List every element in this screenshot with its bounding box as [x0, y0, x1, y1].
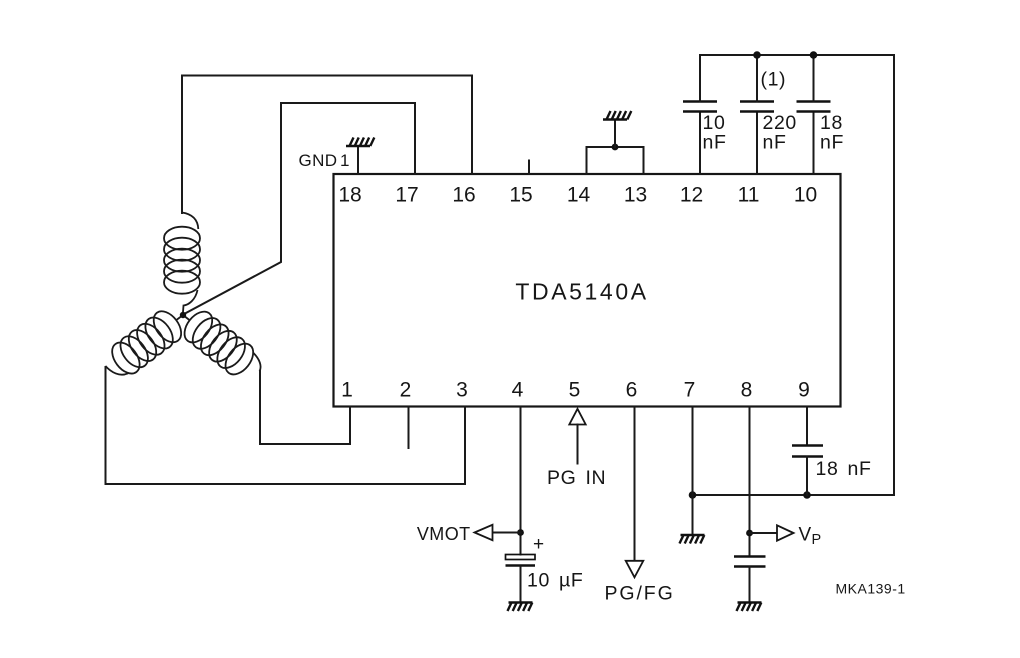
IC U1 TDA5140A body — [334, 174, 841, 407]
coil L3 right winding — [173, 302, 268, 387]
junction VP node — [746, 530, 753, 537]
wire right side rail — [893, 55, 895, 495]
capacitor C4 18nF — [792, 446, 823, 457]
wire pin7 to ground — [692, 407, 694, 536]
svg-text:1: 1 — [341, 379, 353, 402]
wire pin9 to C4 — [806, 407, 808, 446]
wire C3 to top rail — [813, 55, 815, 102]
svg-text:TDA5140A: TDA5140A — [515, 279, 648, 305]
junction star node — [180, 312, 186, 318]
wire pin18 to GND1 — [357, 146, 359, 174]
svg-text:8: 8 — [741, 379, 753, 402]
wire C1 to top rail — [699, 55, 701, 102]
wire pin3 bottom rail to coil L2 end — [106, 367, 466, 484]
svg-text:nF: nF — [703, 132, 727, 154]
svg-text:5: 5 — [569, 379, 581, 402]
wire pin11 to C2 — [756, 112, 758, 175]
junction bottom rail C4 — [803, 491, 811, 499]
ground C6 — [737, 603, 762, 612]
svg-text:P: P — [812, 532, 822, 548]
wire pin10 to C3 — [813, 112, 815, 175]
ground pin7 — [680, 535, 705, 544]
wire pin8 down through rail to VP node — [749, 407, 751, 557]
coil L1 top winding — [164, 213, 200, 315]
wire C2 to top rail — [756, 55, 758, 102]
junction top rail C3 — [810, 51, 818, 59]
svg-text:µF: µF — [559, 570, 583, 592]
svg-text:13: 13 — [624, 184, 647, 207]
wire C4 to bottom rail — [806, 457, 808, 496]
capacitor C3 18nF — [797, 102, 831, 112]
wire strap to ground — [614, 120, 616, 148]
svg-text:18: 18 — [338, 184, 361, 207]
svg-text:9: 9 — [798, 379, 810, 402]
svg-text:IN: IN — [586, 467, 607, 489]
arrow VP (right) — [777, 525, 794, 540]
arrow PG/FG (down) — [626, 561, 644, 578]
svg-text:10: 10 — [527, 570, 550, 592]
svg-text:10: 10 — [794, 184, 817, 207]
pin 15 stub — [528, 161, 530, 175]
wire pins 14-13 strap — [587, 147, 644, 174]
svg-text:V: V — [799, 525, 812, 546]
svg-text:12: 12 — [680, 184, 703, 207]
wire VMOT node to arrow — [493, 532, 521, 534]
wire pin1 to coil L3 end — [260, 371, 350, 444]
svg-text:7: 7 — [684, 379, 696, 402]
svg-text:18: 18 — [816, 458, 839, 480]
arrow VMOT (left) — [475, 525, 493, 540]
wire top rail — [700, 54, 894, 56]
wire PG IN — [577, 425, 579, 464]
junction VMOT node — [517, 529, 524, 536]
capacitor C2 220nF — [740, 102, 774, 112]
wire C6 to ground — [749, 567, 751, 603]
svg-text:3: 3 — [456, 379, 468, 402]
svg-text:2: 2 — [400, 379, 412, 402]
junction bottom rail pin7 — [689, 491, 697, 499]
pin 2 stub — [408, 407, 410, 449]
capacitor C5 10uF electrolytic — [506, 555, 536, 560]
wire pin6 to PG/FG arrow — [634, 407, 636, 561]
svg-text:14: 14 — [567, 184, 591, 207]
wire pin16 to coil L1 top — [182, 76, 472, 214]
junction top rail C2 — [753, 51, 761, 59]
svg-text:PG/FG: PG/FG — [605, 583, 675, 605]
ground GND1 symbol — [346, 138, 374, 147]
wire pin4 to VMOT node and C5 — [520, 407, 522, 555]
wire C5 to ground — [520, 567, 522, 603]
ground C5 — [508, 603, 533, 612]
svg-text:17: 17 — [395, 184, 418, 207]
svg-text:nF: nF — [848, 458, 872, 480]
wire pin12 to C1 — [699, 112, 701, 175]
svg-text:nF: nF — [820, 132, 844, 154]
svg-text:15: 15 — [509, 184, 532, 207]
ground above pins 13-14 — [603, 111, 631, 120]
arrow PG IN (up into pin5) — [569, 409, 585, 425]
wire bottom right rail — [693, 494, 895, 496]
svg-text:+: + — [533, 534, 544, 555]
svg-text:4: 4 — [512, 379, 524, 402]
svg-text:16: 16 — [452, 184, 475, 207]
svg-text:VMOT: VMOT — [417, 524, 471, 544]
svg-text:PG: PG — [547, 467, 576, 489]
capacitor C6 at pin8 — [734, 557, 766, 567]
svg-text:6: 6 — [626, 379, 638, 402]
coil L2 left winding — [99, 302, 193, 385]
svg-text:MKA139-1: MKA139-1 — [836, 581, 906, 597]
wire pin17 to star node — [184, 103, 415, 314]
svg-text:(1): (1) — [761, 69, 787, 91]
capacitor C1 10nF — [683, 102, 717, 112]
wire VP node to arrow — [750, 532, 778, 534]
svg-text:11: 11 — [738, 184, 760, 207]
svg-text:nF: nF — [763, 132, 787, 154]
svg-text:GND1: GND1 — [299, 151, 350, 170]
junction strap center — [612, 144, 619, 151]
